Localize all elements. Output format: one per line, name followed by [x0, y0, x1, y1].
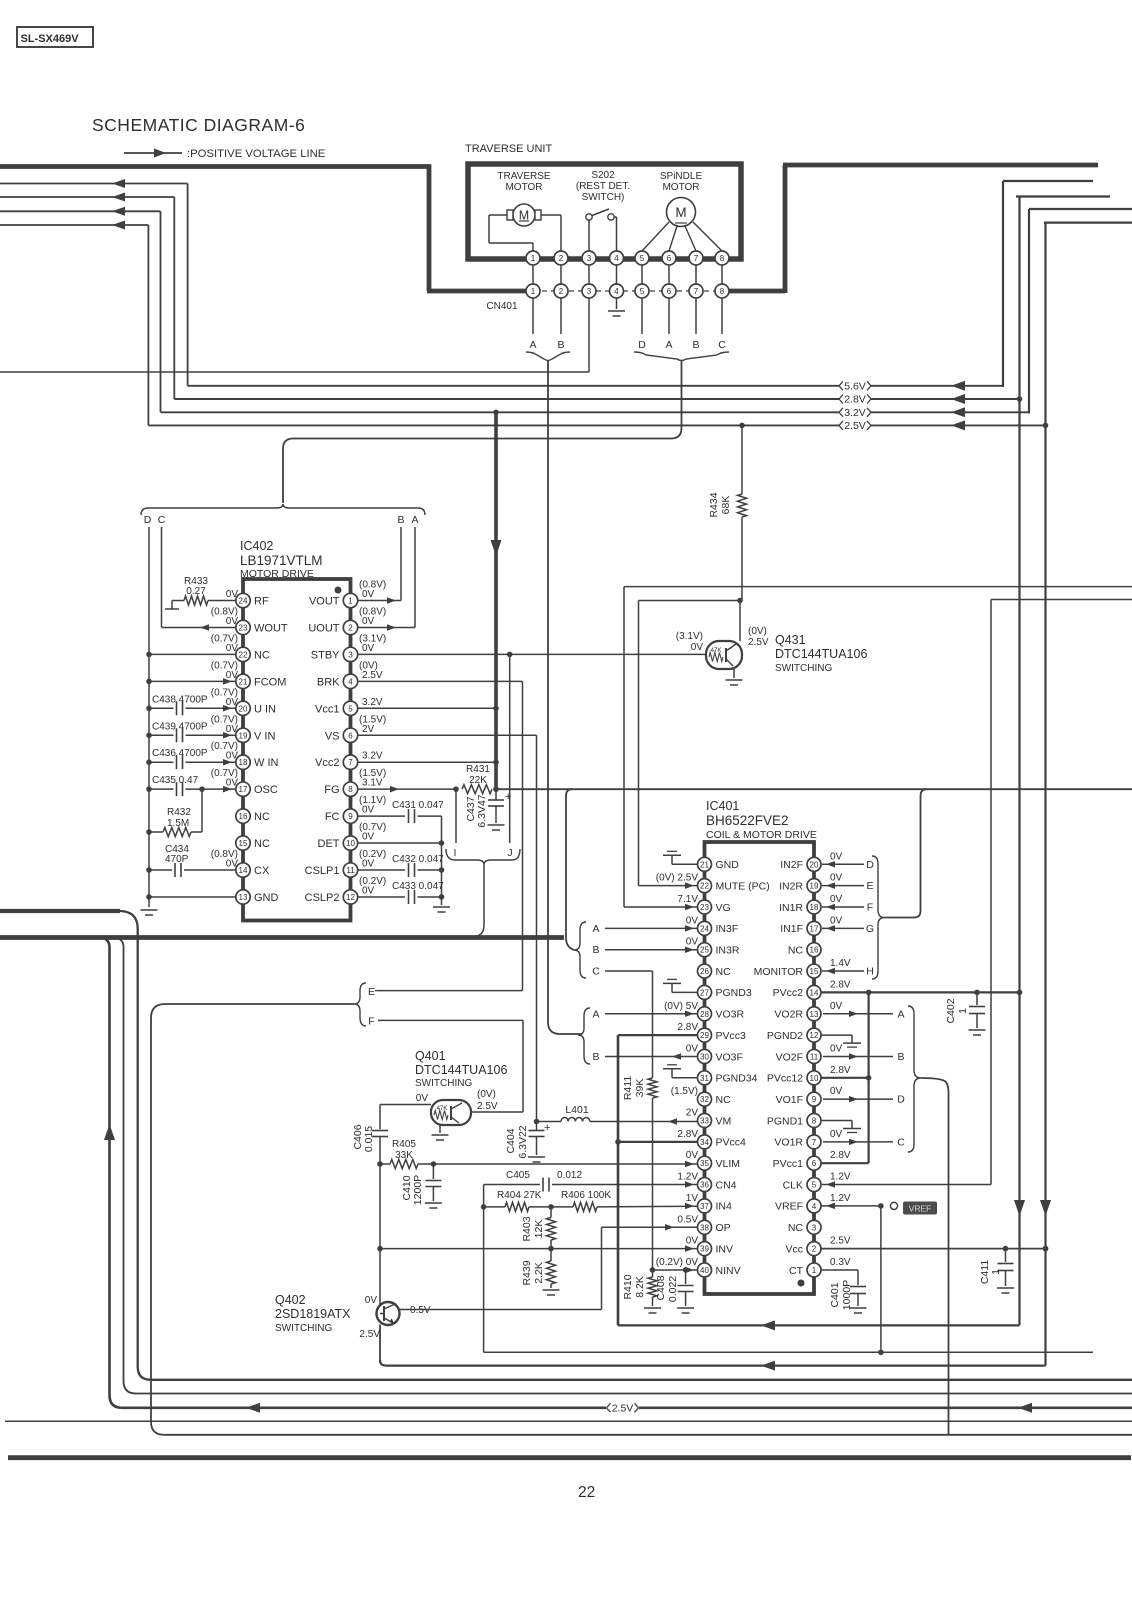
- svg-text:26: 26: [700, 967, 709, 976]
- svg-text:C439 4700P: C439 4700P: [152, 721, 208, 732]
- svg-text:14: 14: [239, 866, 248, 875]
- svg-text:31: 31: [700, 1074, 709, 1083]
- svg-text:F: F: [368, 1016, 374, 1028]
- svg-text:2V: 2V: [686, 1108, 699, 1119]
- svg-text:39K: 39K: [634, 1079, 646, 1098]
- svg-text:PGND34: PGND34: [716, 1073, 758, 1085]
- svg-text:36: 36: [700, 1181, 709, 1190]
- svg-text:1000P: 1000P: [841, 1280, 853, 1310]
- svg-text:17: 17: [810, 924, 819, 933]
- svg-text:LB1971VTLM: LB1971VTLM: [240, 553, 323, 568]
- svg-text:PGND2: PGND2: [767, 1030, 803, 1042]
- svg-text:0.27: 0.27: [186, 586, 206, 597]
- svg-text:2.8V: 2.8V: [844, 394, 866, 406]
- svg-text:PVcc3: PVcc3: [716, 1030, 747, 1042]
- svg-text:B: B: [692, 339, 699, 351]
- svg-text:VO2F: VO2F: [776, 1051, 803, 1063]
- svg-text:2V: 2V: [362, 724, 375, 735]
- svg-text:R431: R431: [466, 764, 490, 775]
- svg-text:L401: L401: [565, 1104, 589, 1116]
- svg-text:FG: FG: [324, 784, 339, 796]
- svg-text:4: 4: [614, 254, 619, 263]
- svg-text:CN401: CN401: [486, 301, 518, 312]
- svg-text:C: C: [592, 966, 600, 978]
- svg-text:8: 8: [812, 1117, 817, 1126]
- svg-text:0V: 0V: [416, 1093, 429, 1104]
- svg-text:J: J: [507, 847, 512, 859]
- svg-text:3: 3: [812, 1223, 817, 1232]
- svg-text:0.012: 0.012: [557, 1170, 582, 1181]
- svg-text:IC401: IC401: [706, 799, 739, 813]
- svg-text:0V: 0V: [362, 805, 375, 816]
- svg-text:D: D: [866, 859, 874, 871]
- svg-text:1: 1: [531, 254, 536, 263]
- svg-text:22: 22: [239, 650, 248, 659]
- svg-text:22K: 22K: [469, 775, 487, 786]
- svg-text:D: D: [638, 339, 646, 351]
- svg-text:PVcc2: PVcc2: [773, 987, 804, 999]
- svg-text:2.2K: 2.2K: [533, 1262, 545, 1284]
- svg-text:16: 16: [239, 812, 248, 821]
- svg-text:28: 28: [700, 1010, 709, 1019]
- svg-text:Vcc2: Vcc2: [315, 757, 339, 769]
- svg-text:B: B: [897, 1051, 904, 1063]
- svg-text:0V: 0V: [830, 1129, 843, 1140]
- svg-text:27: 27: [700, 988, 709, 997]
- svg-text:68K: 68K: [720, 496, 732, 515]
- svg-text:NC: NC: [254, 838, 270, 850]
- svg-text:29: 29: [700, 1031, 709, 1040]
- svg-text:Vcc: Vcc: [785, 1243, 803, 1255]
- svg-text:10: 10: [346, 839, 355, 848]
- svg-text:E: E: [368, 986, 375, 998]
- svg-text:6: 6: [348, 731, 353, 740]
- svg-text:4: 4: [812, 1202, 817, 1211]
- svg-text:2.5V: 2.5V: [612, 1402, 634, 1414]
- svg-text:R406 100K: R406 100K: [561, 1190, 611, 1201]
- svg-text:IN3F: IN3F: [716, 923, 739, 935]
- svg-text:1.4V: 1.4V: [830, 958, 851, 969]
- svg-text:VO3R: VO3R: [716, 1009, 745, 1021]
- svg-text:1: 1: [957, 1008, 969, 1014]
- svg-text:SWITCH): SWITCH): [582, 192, 625, 203]
- svg-text:0V: 0V: [362, 643, 375, 654]
- svg-text:C438 4700P: C438 4700P: [152, 694, 208, 705]
- svg-text:19: 19: [810, 882, 819, 891]
- svg-text:5: 5: [640, 287, 645, 296]
- svg-text:6: 6: [667, 254, 672, 263]
- svg-text:VO1R: VO1R: [774, 1137, 803, 1149]
- svg-text:8.2K: 8.2K: [634, 1276, 646, 1298]
- svg-text:FC: FC: [325, 811, 340, 823]
- svg-text:(0V): (0V): [748, 626, 767, 637]
- svg-text:TRAVERSE: TRAVERSE: [497, 171, 550, 182]
- svg-text:5: 5: [812, 1181, 817, 1190]
- svg-text:NC: NC: [716, 966, 732, 978]
- svg-text:0V: 0V: [362, 832, 375, 843]
- svg-text:11: 11: [346, 866, 355, 875]
- svg-text:PGND3: PGND3: [716, 987, 752, 999]
- svg-text:W IN: W IN: [254, 757, 278, 769]
- svg-text:VM: VM: [716, 1115, 732, 1127]
- svg-text:8: 8: [720, 287, 725, 296]
- svg-text:CLK: CLK: [783, 1179, 803, 1191]
- svg-text:CX: CX: [254, 865, 270, 877]
- svg-text:4: 4: [348, 677, 353, 686]
- svg-text:5: 5: [348, 704, 353, 713]
- svg-text:R439: R439: [521, 1260, 533, 1285]
- svg-text:A: A: [592, 923, 599, 935]
- svg-text:6: 6: [667, 287, 672, 296]
- svg-text:I: I: [454, 847, 457, 859]
- svg-text:12: 12: [346, 893, 355, 902]
- svg-text:CN4: CN4: [716, 1179, 737, 1191]
- svg-text:3.2V: 3.2V: [362, 751, 383, 762]
- svg-text:VO2R: VO2R: [774, 1009, 803, 1021]
- svg-text:0V: 0V: [830, 915, 843, 926]
- svg-text:GND: GND: [716, 859, 740, 871]
- svg-text:C408: C408: [655, 1275, 667, 1300]
- svg-text:PGND1: PGND1: [767, 1115, 803, 1127]
- svg-text:22: 22: [578, 1484, 595, 1501]
- svg-text:7.1V: 7.1V: [677, 894, 698, 905]
- svg-text:0V: 0V: [686, 1043, 699, 1054]
- svg-text:M: M: [675, 205, 686, 220]
- svg-text:3: 3: [587, 254, 592, 263]
- svg-text:FCOM: FCOM: [254, 676, 286, 688]
- svg-text:E: E: [866, 880, 873, 892]
- svg-text:12: 12: [810, 1031, 819, 1040]
- svg-text:0V: 0V: [362, 616, 375, 627]
- svg-text:2SD1819ATX: 2SD1819ATX: [275, 1307, 351, 1321]
- svg-text:2: 2: [348, 623, 353, 632]
- svg-text:470P: 470P: [165, 854, 189, 865]
- svg-text:S202: S202: [591, 170, 615, 181]
- svg-text:0.3V: 0.3V: [830, 1257, 851, 1268]
- svg-text:SWITCHING: SWITCHING: [275, 1323, 332, 1334]
- svg-text:C: C: [158, 514, 166, 526]
- svg-text:VO3F: VO3F: [716, 1051, 743, 1063]
- svg-text:B: B: [397, 514, 404, 526]
- svg-text:2.8V: 2.8V: [677, 1022, 698, 1033]
- svg-text:47K: 47K: [436, 1105, 448, 1112]
- svg-text:16: 16: [810, 946, 819, 955]
- svg-text:0V: 0V: [830, 1086, 843, 1097]
- svg-text:0.5V: 0.5V: [410, 1305, 431, 1316]
- svg-text:NC: NC: [716, 1094, 732, 1106]
- svg-text:3.2V: 3.2V: [362, 697, 383, 708]
- svg-text:2.5V: 2.5V: [359, 1329, 380, 1340]
- svg-text:H: H: [866, 966, 874, 978]
- svg-text:R432: R432: [167, 807, 191, 818]
- svg-text:0V: 0V: [362, 885, 375, 896]
- svg-text:4: 4: [614, 287, 619, 296]
- svg-text:3.1V: 3.1V: [362, 778, 383, 789]
- svg-text:C: C: [718, 339, 726, 351]
- svg-text:(0V): (0V): [477, 1089, 496, 1100]
- svg-text:23: 23: [239, 623, 248, 632]
- svg-text:3.2V: 3.2V: [844, 407, 866, 419]
- svg-text:2: 2: [812, 1245, 817, 1254]
- svg-text:(REST DET.: (REST DET.: [576, 181, 630, 192]
- svg-text:2.5V: 2.5V: [844, 420, 866, 432]
- svg-text:SL-SX469V: SL-SX469V: [21, 33, 80, 45]
- svg-text:VO1F: VO1F: [776, 1094, 803, 1106]
- svg-text:+: +: [544, 1122, 550, 1134]
- svg-text:B: B: [592, 1051, 599, 1063]
- svg-text:10: 10: [810, 1074, 819, 1083]
- svg-text:A: A: [665, 339, 672, 351]
- svg-text:32: 32: [700, 1095, 709, 1104]
- svg-text:18: 18: [810, 903, 819, 912]
- svg-text:+: +: [505, 791, 511, 803]
- svg-text:SCHEMATIC DIAGRAM-6: SCHEMATIC DIAGRAM-6: [92, 115, 305, 135]
- svg-text:0.5V: 0.5V: [677, 1214, 698, 1225]
- svg-text:14: 14: [810, 988, 819, 997]
- svg-text:IN1F: IN1F: [780, 923, 803, 935]
- svg-text:2.5V: 2.5V: [830, 1236, 851, 1247]
- svg-text:VG: VG: [716, 902, 731, 914]
- svg-text:0V: 0V: [365, 1295, 378, 1306]
- svg-text:R410: R410: [622, 1274, 634, 1299]
- svg-text:NC: NC: [254, 811, 270, 823]
- svg-text:R403: R403: [521, 1216, 533, 1241]
- svg-text:C431 0.047: C431 0.047: [392, 800, 444, 811]
- svg-text:1: 1: [990, 1269, 1002, 1275]
- svg-text:C436 4700P: C436 4700P: [152, 748, 208, 759]
- svg-text:OP: OP: [716, 1222, 731, 1234]
- svg-text:24: 24: [700, 924, 709, 933]
- svg-text:IN2R: IN2R: [779, 880, 803, 892]
- svg-text:SWITCHING: SWITCHING: [775, 663, 832, 674]
- svg-text:(1.5V): (1.5V): [671, 1086, 698, 1097]
- svg-text:6.3V22: 6.3V22: [517, 1125, 529, 1158]
- svg-text:2.8V: 2.8V: [830, 1065, 851, 1076]
- svg-text:22: 22: [700, 882, 709, 891]
- svg-text:IC402: IC402: [240, 539, 273, 553]
- svg-text:C435 0.47: C435 0.47: [152, 775, 199, 786]
- svg-text:A: A: [529, 339, 536, 351]
- svg-text:37: 37: [700, 1202, 709, 1211]
- svg-text:A: A: [411, 514, 418, 526]
- svg-text:MOTOR DRIVE: MOTOR DRIVE: [240, 568, 314, 580]
- svg-text:F: F: [867, 902, 873, 914]
- svg-text:0V: 0V: [686, 915, 699, 926]
- svg-text:DTC144TUA106: DTC144TUA106: [775, 647, 867, 661]
- svg-text:RF: RF: [254, 596, 269, 608]
- svg-text:PVcc12: PVcc12: [767, 1073, 803, 1085]
- svg-text:0V: 0V: [830, 1001, 843, 1012]
- svg-text:R411: R411: [622, 1076, 634, 1100]
- svg-text:2.5V: 2.5V: [748, 637, 769, 648]
- svg-text:0V: 0V: [686, 1236, 699, 1247]
- svg-text:MONITOR: MONITOR: [754, 966, 804, 978]
- svg-text:VLIM: VLIM: [716, 1158, 741, 1170]
- svg-text:7: 7: [694, 287, 699, 296]
- svg-text:0V: 0V: [691, 642, 704, 653]
- svg-text:VOUT: VOUT: [309, 596, 340, 608]
- svg-text:R404 27K: R404 27K: [497, 1190, 542, 1201]
- svg-text:0V: 0V: [830, 1043, 843, 1054]
- svg-text:PVcc4: PVcc4: [716, 1137, 747, 1149]
- svg-text:15: 15: [810, 967, 819, 976]
- svg-text:8: 8: [720, 254, 725, 263]
- svg-text:CSLP2: CSLP2: [305, 892, 340, 904]
- svg-text:0V: 0V: [830, 851, 843, 862]
- svg-text:1: 1: [348, 597, 353, 606]
- svg-text:MUTE (PC): MUTE (PC): [716, 880, 770, 892]
- svg-text:C405: C405: [506, 1170, 530, 1181]
- svg-text:NC: NC: [788, 1222, 804, 1234]
- svg-text:B: B: [592, 944, 599, 956]
- svg-text:0V: 0V: [686, 937, 699, 948]
- svg-text:VS: VS: [325, 730, 340, 742]
- svg-text:18: 18: [239, 758, 248, 767]
- svg-text:1: 1: [531, 287, 536, 296]
- svg-text:Vcc1: Vcc1: [315, 703, 339, 715]
- svg-text:VREF: VREF: [775, 1201, 803, 1213]
- svg-text:C: C: [897, 1136, 905, 1148]
- svg-text:13: 13: [239, 893, 248, 902]
- svg-text:WOUT: WOUT: [254, 622, 288, 634]
- svg-text:1.2V: 1.2V: [677, 1172, 698, 1183]
- svg-text:Q401: Q401: [415, 1049, 446, 1063]
- svg-text:SWITCHING: SWITCHING: [415, 1078, 472, 1089]
- svg-text:15: 15: [239, 839, 248, 848]
- svg-text:30: 30: [700, 1052, 709, 1061]
- svg-text:0V: 0V: [362, 589, 375, 600]
- svg-text:Q402: Q402: [275, 1293, 306, 1307]
- svg-text:B: B: [557, 339, 564, 351]
- svg-text:12K: 12K: [533, 1220, 545, 1239]
- svg-text:SPiNDLE: SPiNDLE: [660, 171, 703, 182]
- svg-text:33: 33: [700, 1117, 709, 1126]
- svg-text:3: 3: [587, 287, 592, 296]
- svg-text:(0V) 2.5V: (0V) 2.5V: [656, 873, 699, 884]
- svg-text:NC: NC: [788, 945, 804, 957]
- svg-text:NINV: NINV: [716, 1265, 741, 1277]
- svg-text:8: 8: [348, 785, 353, 794]
- svg-text:9: 9: [348, 812, 353, 821]
- svg-text:2.8V: 2.8V: [830, 979, 851, 990]
- svg-text:21: 21: [700, 860, 709, 869]
- svg-text:6.3V47: 6.3V47: [476, 794, 488, 827]
- svg-text:9: 9: [812, 1095, 817, 1104]
- svg-text:GND: GND: [254, 892, 279, 904]
- svg-text:6: 6: [812, 1159, 817, 1168]
- svg-text:IN2F: IN2F: [780, 859, 803, 871]
- svg-text:D: D: [897, 1094, 905, 1106]
- svg-text:2.8V: 2.8V: [830, 1150, 851, 1161]
- svg-text:1: 1: [812, 1266, 817, 1275]
- svg-text:24: 24: [239, 597, 248, 606]
- svg-text:C433 0.047: C433 0.047: [392, 881, 444, 892]
- svg-text:0V: 0V: [830, 873, 843, 884]
- svg-text:CT: CT: [789, 1265, 804, 1277]
- svg-text:40: 40: [700, 1266, 709, 1275]
- svg-text:21: 21: [239, 677, 248, 686]
- svg-text:NC: NC: [254, 649, 270, 661]
- svg-text:G: G: [866, 923, 874, 935]
- svg-text:0V: 0V: [830, 894, 843, 905]
- svg-text:C432 0.047: C432 0.047: [392, 854, 444, 865]
- svg-text:0.015: 0.015: [363, 1126, 375, 1152]
- svg-text:2.5V: 2.5V: [477, 1101, 498, 1112]
- svg-text:TRAVERSE UNIT: TRAVERSE UNIT: [465, 143, 552, 155]
- svg-text:38: 38: [700, 1223, 709, 1232]
- svg-text:1.2V: 1.2V: [830, 1172, 851, 1183]
- svg-text::POSITIVE VOLTAGE LINE: :POSITIVE VOLTAGE LINE: [187, 148, 326, 160]
- svg-text:0V: 0V: [362, 859, 375, 870]
- svg-text:CSLP1: CSLP1: [305, 865, 340, 877]
- svg-text:C404: C404: [505, 1128, 517, 1153]
- svg-text:25: 25: [700, 946, 709, 955]
- svg-text:1.2V: 1.2V: [830, 1193, 851, 1204]
- svg-text:C402: C402: [945, 998, 957, 1023]
- svg-text:19: 19: [239, 731, 248, 740]
- svg-text:A: A: [592, 1008, 599, 1020]
- svg-text:COIL & MOTOR DRIVE: COIL & MOTOR DRIVE: [706, 829, 817, 841]
- svg-text:11: 11: [810, 1052, 819, 1061]
- svg-text:D: D: [144, 514, 152, 526]
- svg-text:BRK: BRK: [317, 676, 340, 688]
- svg-text:2: 2: [559, 287, 564, 296]
- svg-text:(0V) 5V: (0V) 5V: [664, 1001, 698, 1012]
- svg-text:34: 34: [700, 1138, 709, 1147]
- svg-text:C401: C401: [829, 1282, 841, 1307]
- svg-text:(3.1V): (3.1V): [676, 631, 703, 642]
- svg-text:OSC: OSC: [254, 784, 278, 796]
- svg-text:39: 39: [700, 1245, 709, 1254]
- svg-text:7: 7: [348, 758, 353, 767]
- svg-text:R434: R434: [708, 492, 720, 517]
- svg-text:5.6V: 5.6V: [844, 380, 866, 392]
- svg-text:1.5M: 1.5M: [167, 818, 189, 829]
- svg-text:DTC144TUA106: DTC144TUA106: [415, 1063, 507, 1077]
- svg-text:20: 20: [239, 704, 248, 713]
- svg-text:R405: R405: [392, 1139, 416, 1150]
- svg-text:PVcc1: PVcc1: [773, 1158, 804, 1170]
- svg-text:7: 7: [694, 254, 699, 263]
- svg-text:17: 17: [239, 785, 248, 794]
- svg-text:IN4: IN4: [716, 1201, 733, 1213]
- svg-text:3: 3: [348, 650, 353, 659]
- svg-text:2.8V: 2.8V: [677, 1129, 698, 1140]
- svg-text:MOTOR: MOTOR: [662, 182, 699, 193]
- svg-text:1200P: 1200P: [412, 1175, 424, 1205]
- svg-text:INV: INV: [716, 1243, 734, 1255]
- svg-text:2: 2: [559, 254, 564, 263]
- svg-text:A: A: [897, 1008, 904, 1020]
- svg-text:DET: DET: [318, 838, 340, 850]
- svg-text:5: 5: [640, 254, 645, 263]
- svg-text:UOUT: UOUT: [308, 622, 339, 634]
- svg-text:23: 23: [700, 903, 709, 912]
- svg-text:U IN: U IN: [254, 703, 276, 715]
- svg-text:0.022: 0.022: [667, 1276, 679, 1302]
- svg-text:20: 20: [810, 860, 819, 869]
- svg-text:35: 35: [700, 1159, 709, 1168]
- svg-text:V IN: V IN: [254, 730, 275, 742]
- svg-text:STBY: STBY: [311, 649, 340, 661]
- svg-text:MOTOR: MOTOR: [505, 182, 542, 193]
- svg-text:33K: 33K: [395, 1150, 413, 1161]
- svg-text:13: 13: [810, 1010, 819, 1019]
- svg-text:2.5V: 2.5V: [362, 670, 383, 681]
- svg-text:1V: 1V: [686, 1193, 699, 1204]
- svg-text:Q431: Q431: [775, 633, 806, 647]
- svg-text:0V: 0V: [686, 1150, 699, 1161]
